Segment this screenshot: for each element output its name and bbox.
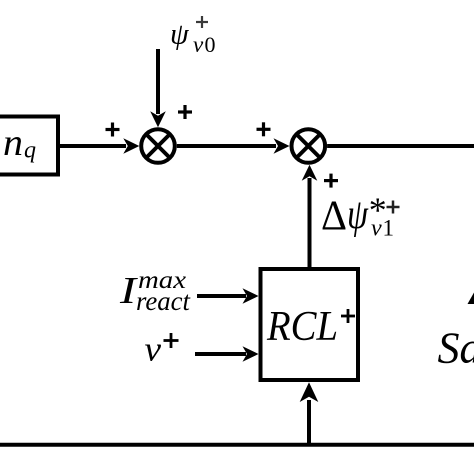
- arrowhead into RCL left input 2: [243, 346, 259, 362]
- svg-text:0: 0: [205, 32, 216, 57]
- arrowhead into RCL left input 1: [243, 288, 259, 304]
- block nq (clipped at left edge): [0, 117, 58, 175]
- arrowhead into junction 1 top: [150, 111, 166, 127]
- wire psi_v0 down into junction 1: [156, 49, 160, 114]
- svg-text:react: react: [136, 286, 191, 316]
- wire junction 2 to right edge: [327, 144, 474, 148]
- svg-text:n: n: [3, 122, 23, 164]
- plus sign at junction 2 left input: [257, 122, 271, 136]
- arrowhead into junction 1: [123, 138, 139, 154]
- svg-text:1: 1: [383, 216, 395, 241]
- svg-text:Sa: Sa: [438, 324, 474, 373]
- summing junction 2: [292, 129, 326, 163]
- arrowhead into junction 2: [274, 138, 290, 154]
- plus sign at junction 2 bottom input: [324, 174, 338, 188]
- svg-text:RCL: RCL: [266, 304, 338, 350]
- arrowhead into junction 2 bottom: [302, 165, 318, 181]
- label delta psi_v1^*+: [321, 190, 400, 242]
- wire I_react into RCL: [197, 294, 246, 298]
- svg-text:v: v: [193, 32, 204, 57]
- plus sign at junction 1 top input: [178, 105, 192, 119]
- svg-text:v: v: [145, 330, 162, 369]
- wire junction 1 to junction 2: [177, 144, 276, 148]
- svg-text:q: q: [24, 138, 36, 164]
- svg-text:ψ: ψ: [170, 18, 190, 51]
- wire bottom line up into RCL: [307, 400, 311, 445]
- plus sign at junction 1 left input: [106, 123, 120, 137]
- clipped glyph fragment at right edge: [468, 293, 474, 305]
- label psi_v0^+: [170, 16, 216, 57]
- label v^+: [145, 330, 179, 369]
- label I_react^max: [119, 267, 192, 316]
- arrowhead into RCL bottom: [300, 382, 319, 402]
- svg-text:ψ: ψ: [347, 192, 369, 238]
- wire RCL block up into junction 2: [308, 178, 312, 267]
- svg-text:v: v: [371, 216, 382, 242]
- summing junction 1: [141, 129, 175, 163]
- block RCL+: [261, 269, 359, 380]
- bottom feedback wire: [0, 443, 474, 447]
- svg-text:Δ: Δ: [321, 194, 347, 240]
- wire v into RCL: [195, 352, 246, 356]
- wire nq to summing junction 1: [58, 144, 126, 148]
